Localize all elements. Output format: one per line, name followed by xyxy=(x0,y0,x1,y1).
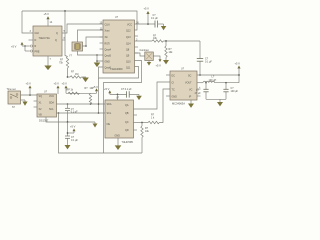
U2 left pin stubs xyxy=(100,42,104,44)
capacitor C6 47uF xyxy=(205,83,207,90)
wire U1 Q to U2 clk in xyxy=(62,24,103,33)
svg-text:GND: GND xyxy=(115,135,121,138)
svg-text:0.1 µF: 0.1 µF xyxy=(205,61,212,64)
power +5V rail A end xyxy=(96,92,98,94)
wire loop1 below U2 xyxy=(99,67,139,79)
svg-text:Qout4: Qout4 xyxy=(105,49,112,52)
svg-text:47 µF: 47 µF xyxy=(195,92,202,95)
svg-text:+5 V: +5 V xyxy=(54,82,60,86)
node A junction on rail xyxy=(64,10,66,12)
U2 right pin stubs xyxy=(135,35,139,37)
IC U3 DS1307 body xyxy=(37,94,57,117)
svg-text:+5 V: +5 V xyxy=(62,82,68,86)
crystal Y1 body xyxy=(72,42,83,51)
svg-text:QB: QB xyxy=(125,112,129,115)
svg-text:CI: CI xyxy=(172,82,175,85)
resistor R8 1k xyxy=(148,121,159,123)
svg-text:QA: QA xyxy=(125,104,129,107)
wire U1 D stub xyxy=(29,39,34,41)
resistor R5 pullup in rail xyxy=(68,92,79,94)
svg-text:Q14: Q14 xyxy=(126,43,131,46)
svg-text:74HC74A: 74HC74A xyxy=(39,36,51,40)
svg-text:Q12: Q12 xyxy=(126,30,131,33)
svg-text:Q: Q xyxy=(56,32,58,35)
U1 inversion bubble PRE xyxy=(30,50,32,52)
U3 left pin stubs xyxy=(34,100,38,102)
ground y122 end xyxy=(94,122,96,124)
svg-text:QC: QC xyxy=(125,121,129,124)
svg-text:+5 V: +5 V xyxy=(26,82,32,86)
ground U5 xyxy=(190,100,192,104)
wire U5 out rail xyxy=(197,82,203,84)
capacitor C2 0.1uF series xyxy=(197,58,203,60)
svg-text:R: R xyxy=(35,45,37,48)
wire scl riser xyxy=(98,78,100,113)
resistor R9 10k to rail xyxy=(141,122,143,126)
power +5V pot wiper xyxy=(153,56,160,59)
wire scl line y113 xyxy=(57,112,106,114)
wire U4 to U5 serial b with R8 xyxy=(134,122,149,124)
wire switch to rtc xyxy=(21,94,38,96)
wire U2 Q14 long rail to right xyxy=(135,40,153,42)
wire U1 left clk xyxy=(22,11,33,33)
svg-text:1M: 1M xyxy=(75,73,78,76)
wire battery branch xyxy=(67,122,69,136)
svg-text:VCC: VCC xyxy=(49,95,54,98)
node U4 vcc tap xyxy=(117,94,119,96)
wire U2 gnd pin xyxy=(97,61,103,63)
IC U5 MC34063 body xyxy=(170,71,197,100)
svg-text:VCC: VCC xyxy=(127,24,132,27)
power +5V battery branch xyxy=(68,132,75,134)
svg-text:SQ: SQ xyxy=(39,95,43,98)
svg-text:SCL: SCL xyxy=(107,112,112,115)
U4 right stubs xyxy=(134,114,138,116)
svg-text:100 µF: 100 µF xyxy=(231,90,239,93)
ground pot bottom xyxy=(148,61,150,63)
wire rail drop to R divider xyxy=(65,11,68,57)
svg-text:MC34063A: MC34063A xyxy=(172,102,185,106)
svg-text:0.1 µF: 0.1 µF xyxy=(151,17,158,20)
wire U5 vin line xyxy=(197,74,239,76)
wire sda line y104 xyxy=(57,103,106,105)
ground C5 xyxy=(138,94,140,95)
svg-text:OE: OE xyxy=(107,123,111,126)
ground divider xyxy=(82,78,89,83)
svg-text:+5 V: +5 V xyxy=(156,64,162,68)
switch S1 body xyxy=(8,91,21,104)
U5 right stubs xyxy=(197,88,201,90)
capacitor C7 100uF xyxy=(225,83,227,90)
svg-text:Qout6: Qout6 xyxy=(105,67,112,70)
ground caps rail xyxy=(206,98,226,100)
capacitor C4 xyxy=(65,135,70,137)
svg-text:+5 V: +5 V xyxy=(11,45,17,49)
ground switch xyxy=(21,99,26,101)
U1 inversion bubble R xyxy=(30,45,32,47)
ground C1 xyxy=(163,24,165,26)
wire U4 to U5 serial a xyxy=(134,82,171,109)
svg-text:CLKI: CLKI xyxy=(105,24,111,27)
svg-text:VC: VC xyxy=(189,89,193,92)
wire loop2 below U2 xyxy=(104,61,142,154)
svg-text:QD: QD xyxy=(125,129,129,132)
svg-text:+5 V: +5 V xyxy=(235,62,241,66)
svg-text:SDA: SDA xyxy=(107,103,112,106)
svg-text:DC: DC xyxy=(172,75,176,78)
ground U1 xyxy=(47,56,49,66)
svg-text:+5 V: +5 V xyxy=(70,125,76,129)
node C2 to vin junction xyxy=(199,74,201,76)
resistor R2 1M horizontal xyxy=(68,76,71,78)
svg-text:Q11: Q11 xyxy=(126,67,131,70)
ground U2 xyxy=(94,63,101,68)
IC U2 74HC4060 body xyxy=(103,20,135,73)
IC U4 74HC595 body xyxy=(105,100,134,138)
svg-text:VB: VB xyxy=(39,114,43,117)
ground U4 xyxy=(117,138,119,146)
svg-text:VOUT: VOUT xyxy=(185,82,192,85)
IC U1 74HC74 body xyxy=(33,26,62,56)
svg-text:Xout: Xout xyxy=(105,30,110,33)
svg-text:D: D xyxy=(35,39,37,42)
svg-text:Q10: Q10 xyxy=(126,61,131,64)
svg-text:0.1 µF: 0.1 µF xyxy=(71,139,78,142)
svg-text:+5 V: +5 V xyxy=(104,87,110,91)
svg-text:IP: IP xyxy=(189,96,192,99)
svg-text:SCL: SCL xyxy=(49,108,54,111)
svg-text:74HC595: 74HC595 xyxy=(122,140,134,144)
resistor R7 10k pullup xyxy=(89,93,91,104)
svg-text:0.1 µF: 0.1 µF xyxy=(71,110,78,113)
wire top feedback rail xyxy=(22,11,137,30)
svg-text:GND: GND xyxy=(172,96,178,99)
svg-text:SDA: SDA xyxy=(49,102,54,105)
capacitor C3 xyxy=(67,104,69,108)
wire U2 osc pin to crystal right xyxy=(83,37,104,46)
svg-text:Q: Q xyxy=(55,39,57,42)
wire U2 pin to pot xyxy=(135,53,145,56)
wire long rail drop at x200 xyxy=(199,41,201,59)
resistor R3 10k in series xyxy=(152,40,163,42)
svg-text:Time set: Time set xyxy=(7,88,16,91)
svg-text:CLK: CLK xyxy=(35,32,40,35)
ground C4 xyxy=(65,145,71,149)
wire U3 bottom net y122 xyxy=(46,117,95,122)
svg-text:RSTi: RSTi xyxy=(105,43,111,46)
svg-text:C? 0.1 µF: C? 0.1 µF xyxy=(121,88,132,91)
wire bottom rail xyxy=(59,113,143,153)
resistor R4 10k to ground xyxy=(165,41,167,46)
node divider junction xyxy=(67,76,69,78)
svg-text:GND: GND xyxy=(105,61,111,64)
svg-text:+5 V: +5 V xyxy=(44,12,50,16)
potentiometer P1 body xyxy=(145,52,154,61)
svg-text:PRE: PRE xyxy=(35,51,40,54)
svg-text:RP 1k: RP 1k xyxy=(67,89,74,92)
wire U2 osc pin to crystal top xyxy=(78,30,104,42)
node R3 junction xyxy=(165,40,167,42)
svg-text:100 µH: 100 µH xyxy=(209,79,217,82)
wire vcc rail segment A xyxy=(66,92,97,94)
wire U2 vcc to decoupling xyxy=(135,23,156,25)
ground R4 xyxy=(163,60,169,64)
wire crystal bottom net xyxy=(78,51,104,55)
svg-text:74HC4060: 74HC4060 xyxy=(110,67,123,71)
svg-text:Qout5: Qout5 xyxy=(105,55,112,58)
svg-text:+5 V: +5 V xyxy=(144,7,150,11)
resistor R1 75k vertical xyxy=(66,57,68,69)
svg-text:Contrast: Contrast xyxy=(140,49,149,52)
inductor L1 xyxy=(203,81,215,82)
svg-text:Q13: Q13 xyxy=(126,36,131,39)
svg-text:TC: TC xyxy=(172,89,175,92)
svg-text:SC: SC xyxy=(188,75,192,78)
